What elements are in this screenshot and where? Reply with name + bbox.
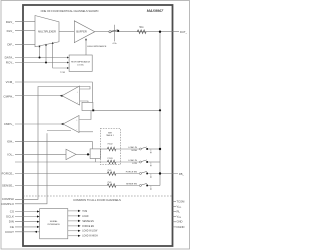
svg-text:75Ω: 75Ω [107, 169, 111, 172]
wire B stub to T2 [47, 130, 71, 132]
wire RCV_ bus [15, 62, 68, 64]
svg-text:DIF_: DIF_ [7, 43, 14, 47]
buffer triangle [74, 21, 95, 43]
IC boundary box [23, 5, 173, 246]
wire T1 lower input to box1 [80, 101, 88, 102]
wire buffer input [59, 31, 74, 33]
right pin ticks [173, 201, 177, 203]
svg-text:LOAD IN LOW: LOAD IN LOW [82, 230, 98, 233]
wire SCLK [15, 216, 38, 218]
wire CMPH_ [15, 95, 62, 97]
svg-text:DHV_: DHV_ [6, 20, 14, 24]
wire CMPL_ [15, 123, 63, 125]
svg-text:LOAD IN: LOAD IN [128, 159, 137, 162]
wire switch2 to bus [147, 161, 160, 163]
CMPL_ output arrowhead [61, 123, 64, 125]
page frame [1, 1, 190, 250]
svg-text:TABLE 1: TABLE 1 [106, 134, 115, 137]
svg-text:DUT_: DUT_ [180, 30, 188, 34]
node bus mid junction [159, 109, 161, 111]
svg-text:DATA_: DATA_ [5, 56, 15, 60]
svg-text:CMPL_: CMPL_ [4, 122, 14, 126]
box2 load network [90, 149, 100, 159]
junction dots on buses [39, 57, 41, 59]
svg-text:TCOM: TCOM [177, 199, 186, 203]
wire CS [15, 211, 38, 213]
switch control vertical [113, 25, 115, 42]
wire DATA_ vertical to mux [39, 46, 41, 58]
wire DIN [15, 221, 38, 223]
svg-text:IOL_: IOL_ [7, 153, 14, 157]
dashed divider common section [23, 195, 173, 197]
svg-text:MAX9967: MAX9967 [147, 9, 164, 13]
svg-text:LOAD IN HIGH: LOAD IN HIGH [82, 235, 98, 238]
arrows into serial box [35, 210, 40, 233]
multiplexer trapezoid [35, 16, 59, 47]
wire box2 bottom to R2 line [94, 159, 96, 163]
switch stub glyphs [150, 152, 152, 190]
wire COMPHI net A [15, 87, 90, 200]
wire SENSE_ branch [15, 185, 107, 187]
left pin labels [1, 20, 15, 234]
wire DLV_ to mux [15, 30, 35, 32]
node box1 output junction [92, 109, 94, 111]
svg-text:FORCE_: FORCE_ [2, 172, 15, 176]
svg-text:COMPLO: COMPLO [1, 202, 15, 206]
right pin labels [177, 199, 186, 228]
wire switch3 to bus to FB_ [147, 173, 178, 175]
DOUT arrow pointing left [35, 231, 38, 233]
wire FORCE_ branch [15, 173, 107, 175]
wire R2 line from border [15, 161, 107, 163]
svg-text:SENSE EN: SENSE EN [82, 221, 94, 223]
box1 sense network [82, 102, 93, 110]
node DUT junction [159, 31, 161, 33]
switch at buffer output [109, 31, 111, 33]
wire DHV_ to mux [15, 21, 35, 23]
comparator T2 [63, 116, 79, 133]
wire TCM net [53, 43, 68, 68]
svg-text:TCM: TCM [82, 211, 87, 213]
resistor R1 [107, 147, 116, 151]
wire high impedance control [85, 39, 87, 55]
svg-text:CE: CE [10, 225, 14, 229]
CMPH_ output arrowhead [60, 95, 63, 97]
svg-text:FB_: FB_ [179, 172, 184, 176]
node amp out [87, 153, 89, 155]
wire T2 lower corner stub [79, 131, 93, 133]
svg-text:FORCE EN: FORCE EN [126, 172, 138, 174]
wire DOUT [15, 231, 40, 233]
svg-text:LOAD: LOAD [82, 215, 89, 218]
wire buffer output [95, 31, 109, 33]
wire IOL_ to load amp [15, 153, 66, 155]
resistor R4 [107, 184, 116, 188]
wire R1 to switch1 [116, 148, 140, 150]
high impedance logic box [69, 55, 92, 71]
buffer hiZ arrow [85, 38, 87, 40]
svg-text:SCLK: SCLK [6, 215, 14, 219]
svg-text:FORCE EN: FORCE EN [82, 226, 94, 228]
svg-text:SERIAL: SERIAL [50, 220, 59, 223]
svg-text:GND: GND [177, 220, 183, 224]
resistor R3 [107, 172, 116, 176]
wire switch4 to bus [147, 185, 160, 187]
wire amp out to box2 [76, 153, 90, 155]
svg-text:HIGH IMPEDANCE: HIGH IMPEDANCE [71, 60, 91, 63]
arrows into hiZ box [67, 57, 69, 70]
wire R2 to switch2 [116, 161, 140, 163]
svg-text:CMPH_: CMPH_ [3, 95, 14, 99]
svg-text:LOAD IN: LOAD IN [128, 146, 137, 149]
resistor 50 ohm on DUT line [137, 30, 146, 34]
svg-text:DOUT: DOUT [5, 230, 14, 234]
svg-text:75kΩ: 75kΩ [107, 143, 113, 146]
wire VTT_ to mux [15, 43, 35, 45]
svg-text:SENSE_: SENSE_ [2, 184, 14, 188]
svg-text:50Ω: 50Ω [139, 26, 144, 29]
svg-text:DGND: DGND [177, 225, 185, 229]
wire IOH_ to box2 [15, 141, 92, 149]
svg-text:DLV_: DLV_ [7, 29, 15, 33]
svg-text:IOH_: IOH_ [7, 140, 14, 144]
comparator T1 input marks [76, 91, 79, 131]
wire box1 to T2 upper input [79, 111, 91, 120]
svg-text:VCM_: VCM_ [6, 80, 15, 84]
mux control arrows [39, 42, 54, 47]
svg-text:COMMON TO ALL FOUR CHANNELS: COMMON TO ALL FOUR CHANNELS [73, 198, 121, 202]
wire CE [15, 226, 38, 228]
serial box outputs [68, 211, 78, 236]
serial interface box [40, 209, 68, 239]
svg-text:SENSE EN: SENSE EN [126, 184, 137, 186]
svg-text:BUFFER: BUFFER [76, 30, 87, 34]
svg-text:TCM: TCM [60, 72, 65, 74]
svg-text:HIGH: HIGH [132, 150, 138, 152]
svg-text:LOW: LOW [132, 163, 138, 165]
svg-text:75Ω: 75Ω [107, 181, 111, 184]
wire box1 output to bus [93, 109, 160, 111]
svg-text:MULTIPLEXER: MULTIPLEXER [38, 29, 56, 33]
svg-text:DIN: DIN [9, 220, 14, 224]
wire VCM_ pin net [15, 82, 92, 102]
svg-text:VSS: VSS [177, 215, 182, 220]
wire DATA_ bus [15, 57, 68, 59]
svg-text:4.5k: 4.5k [112, 43, 117, 45]
svg-text:INTERFACE: INTERFACE [48, 223, 61, 226]
svg-text:RL: RL [177, 210, 181, 214]
svg-text:COMPHI: COMPHI [2, 197, 14, 201]
svg-text:CS: CS [10, 210, 14, 214]
wire COMPLO net B [15, 133, 47, 204]
svg-text:HIGH IMPEDANCE: HIGH IMPEDANCE [87, 45, 107, 48]
load amp [66, 149, 76, 159]
svg-text:VDD: VDD [177, 205, 182, 210]
resistor R2 [107, 160, 116, 164]
wire RCV_ vertical to mux [45, 44, 47, 62]
svg-text:ONE OF FOUR IDENTICAL CHANNELS: ONE OF FOUR IDENTICAL CHANNELS SHOWN [41, 9, 99, 13]
wire switch to DUT_ [111, 31, 179, 33]
wire R1 line in dashed box [101, 148, 108, 150]
dashed resistor box [100, 129, 120, 165]
wire switch1 to bus [147, 148, 160, 150]
svg-text:RCV_: RCV_ [6, 61, 14, 65]
svg-text:LOGIC: LOGIC [77, 65, 84, 67]
vertical bus right [159, 32, 161, 186]
comparator T1 [62, 86, 80, 105]
svg-text:270Ω: 270Ω [107, 157, 113, 160]
